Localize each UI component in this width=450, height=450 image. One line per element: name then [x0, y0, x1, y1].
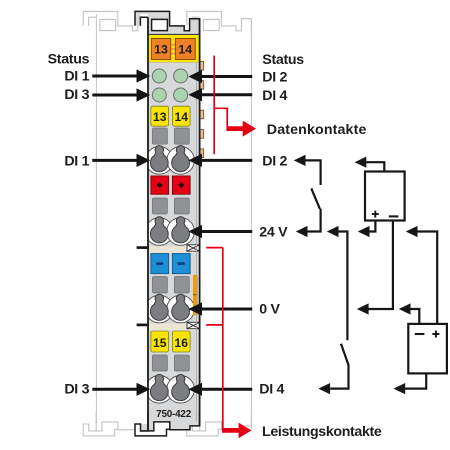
- clamp 8 DI4 opening: [167, 376, 195, 404]
- power jumper contact symbol lower: [187, 322, 199, 328]
- arrow 24V clamp: [201, 230, 253, 233]
- wire 24V to switch S2: [327, 226, 339, 237]
- switch S1 bottom wire: [306, 209, 321, 232]
- arrow DI4 clamp: [201, 388, 253, 391]
- U2 bottom wire to DI4: [405, 373, 426, 388]
- power jumper pin lower left: [137, 324, 149, 327]
- power supply U1 box: [365, 172, 405, 221]
- clamp 1 DI1 spring: [150, 145, 168, 171]
- arrow DI3 clamp: [92, 388, 138, 391]
- clamp 7 DI3 spring: [150, 374, 168, 400]
- U1 plus terminal label: [372, 211, 379, 218]
- data contacts (gold): [200, 61, 204, 70]
- clamp 5 0V opening: [146, 295, 174, 323]
- module top rail-clip profile: [135, 11, 170, 25]
- svg-text:14: 14: [174, 110, 188, 124]
- svg-text:DI 1: DI 1: [64, 154, 89, 170]
- arrow 0V clamp: [201, 308, 253, 311]
- red release button right: [172, 176, 190, 194]
- clamp 2 DI2 opening: [167, 147, 195, 175]
- arrow DI4 status: [201, 93, 253, 96]
- U1 top wire: [366, 162, 385, 171]
- switch S2 bottom wire: [330, 365, 348, 388]
- status LED DI3: [152, 88, 166, 102]
- red arrow Leistungskontakte: [222, 428, 240, 433]
- arrow DI2 status: [201, 75, 253, 78]
- U2 minus wire to 0V: [410, 309, 419, 324]
- wire entry funnel pair: [152, 128, 167, 144]
- clamp 4 24V spring: [172, 217, 190, 243]
- module face groove: [196, 63, 198, 422]
- separation band lower: [149, 324, 197, 331]
- U2 minus terminal label: [415, 333, 425, 335]
- clamp 3 24V opening: [146, 218, 174, 246]
- svg-text:DI 2: DI 2: [262, 70, 287, 86]
- clamp 1 DI1 opening: [146, 147, 174, 175]
- arrow DI1 status: [92, 75, 138, 78]
- red arrow Datenkontakte: [226, 126, 244, 131]
- terminal label 13: [151, 106, 169, 126]
- blue release button left: [151, 254, 169, 274]
- ghost module left side edge: [95, 14, 97, 423]
- svg-text:Status: Status: [48, 51, 90, 67]
- clamp 3 24V spring: [150, 217, 168, 243]
- switch S2 blade: [341, 344, 349, 366]
- clamp 6 0V spring: [172, 294, 190, 320]
- power contacts red wire: [206, 248, 223, 431]
- status LED DI2: [174, 69, 188, 83]
- wire entry funnel pair: [152, 355, 167, 371]
- arrow DI1 clamp: [92, 159, 138, 162]
- svg-text:Leistungskontakte: Leistungskontakte: [262, 424, 382, 440]
- clamp 7 DI3 opening: [146, 376, 174, 404]
- svg-text:Status: Status: [262, 52, 304, 68]
- ghost module right bottom profile: [187, 412, 252, 436]
- svg-text:15: 15: [153, 336, 167, 350]
- orange locking latch: [193, 275, 198, 315]
- power jumper pin upper left: [137, 246, 149, 249]
- wire 24V to PSU1 plus: [358, 226, 370, 237]
- U1 minus wire to 0V: [369, 221, 393, 309]
- separation band upper: [149, 246, 197, 253]
- svg-text:DI 2: DI 2: [262, 154, 287, 170]
- terminal label 16: [172, 331, 190, 352]
- ghost module left top profile: [83, 11, 148, 34]
- ghost module right side edge: [250, 19, 252, 430]
- jumper contact 13: [151, 39, 170, 60]
- arrow DI2 clamp: [201, 159, 253, 162]
- svg-text:13: 13: [154, 43, 168, 57]
- power jumper contact symbol upper: [187, 245, 199, 251]
- red release button left: [151, 176, 169, 194]
- clamp 2 DI2 spring: [172, 145, 190, 171]
- wire entry funnel pair: [152, 198, 167, 214]
- jumper contact 14: [175, 39, 195, 60]
- status LED DI1: [152, 69, 166, 83]
- jumper contact bridge: [171, 44, 176, 46]
- svg-text:24 V: 24 V: [259, 224, 288, 240]
- svg-text:DI 4: DI 4: [262, 88, 287, 104]
- module body right edge: [199, 19, 201, 426]
- module bottom rail-clip profile: [136, 424, 166, 435]
- clamp 6 0V opening: [167, 295, 195, 323]
- svg-text:750-422: 750-422: [156, 409, 192, 420]
- svg-text:13: 13: [153, 110, 167, 124]
- wire entry funnel pair: [152, 277, 167, 294]
- clamp 8 DI4 spring: [172, 374, 190, 400]
- wire 24V to battery plus: [406, 226, 418, 237]
- U2 plus terminal label: [432, 331, 439, 338]
- svg-text:DI 3: DI 3: [64, 381, 89, 397]
- status LED DI4: [174, 88, 188, 102]
- clamp 4 24V opening: [167, 218, 195, 246]
- svg-text:DI 3: DI 3: [64, 87, 89, 103]
- data contacts red riser wire: [214, 56, 227, 155]
- power jumper block top: [148, 35, 200, 63]
- terminal label 14: [172, 106, 190, 126]
- svg-text:DI 4: DI 4: [259, 381, 284, 397]
- svg-text:16: 16: [174, 336, 188, 350]
- arrow DI3 status: [92, 94, 138, 97]
- clamp 5 0V spring: [150, 294, 168, 320]
- blue release button right: [172, 254, 190, 274]
- svg-text:0 V: 0 V: [259, 301, 280, 317]
- U1 minus terminal label: [389, 215, 399, 217]
- svg-text:14: 14: [178, 43, 192, 57]
- module body left edge: [147, 17, 149, 431]
- ghost module right top profile: [187, 11, 252, 34]
- module 750-422 body face: [148, 35, 200, 423]
- terminal label 15: [151, 331, 169, 352]
- switch S1 top wire: [294, 155, 306, 166]
- ghost module left bottom profile: [83, 412, 148, 436]
- battery U2 box: [408, 324, 447, 374]
- svg-text:DI 1: DI 1: [64, 69, 89, 85]
- switch S1 blade: [311, 188, 320, 209]
- svg-text:Datenkontakte: Datenkontakte: [267, 122, 367, 138]
